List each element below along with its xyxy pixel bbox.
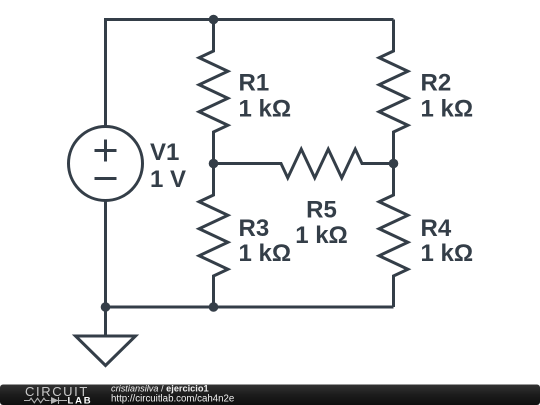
- wire ground tap: [104, 307, 107, 336]
- node dot bottom (R3 bottom): [209, 302, 219, 312]
- svg-text:1 kΩ: 1 kΩ: [239, 240, 292, 267]
- footer bar: [0, 385, 540, 405]
- wire from V1 bottom terminal down and across the bottom rail to R4: [106, 201, 394, 308]
- logo squiggle resistor and diode: [24, 397, 67, 404]
- wire node A to R5 left lead: [214, 162, 254, 165]
- svg-text:cristiansilva / ejercicio1: cristiansilva / ejercicio1: [111, 383, 209, 393]
- resistor R5: [250, 149, 394, 178]
- svg-text:R4: R4: [421, 215, 452, 242]
- svg-text:1 kΩ: 1 kΩ: [421, 96, 474, 123]
- svg-text:V1: V1: [150, 139, 179, 166]
- V1 minus sign: [95, 177, 117, 180]
- svg-text:1 kΩ: 1 kΩ: [421, 240, 474, 267]
- svg-text:R3: R3: [239, 215, 270, 242]
- logo diode triangle: [51, 397, 59, 404]
- node dot top (R1 top): [209, 15, 219, 25]
- voltage source V1 circle: [69, 127, 143, 201]
- resistor R2: [379, 20, 408, 164]
- wire from V1 top terminal up and across the top rail to R2: [106, 20, 394, 127]
- svg-text:1 kΩ: 1 kΩ: [239, 96, 292, 123]
- svg-text:1 V: 1 V: [150, 166, 186, 193]
- resistor R1: [199, 20, 228, 164]
- node B dot (R2/R4/R5 junction): [389, 159, 399, 169]
- ground symbol: [76, 336, 136, 366]
- resistor R4: [379, 164, 408, 308]
- svg-text:R1: R1: [239, 70, 270, 97]
- svg-text:http://circuitlab.com/cah4n2e: http://circuitlab.com/cah4n2e: [111, 394, 234, 405]
- svg-text:LAB: LAB: [68, 396, 93, 405]
- resistor R3: [199, 164, 228, 308]
- node dot bottom-left (ground junction): [101, 302, 111, 312]
- svg-text:1 kΩ: 1 kΩ: [295, 222, 348, 249]
- V1 plus sign: [95, 140, 117, 162]
- svg-text:R2: R2: [421, 70, 452, 97]
- svg-text:R5: R5: [306, 197, 337, 224]
- node A dot (R1/R3/R5 junction): [209, 159, 219, 169]
